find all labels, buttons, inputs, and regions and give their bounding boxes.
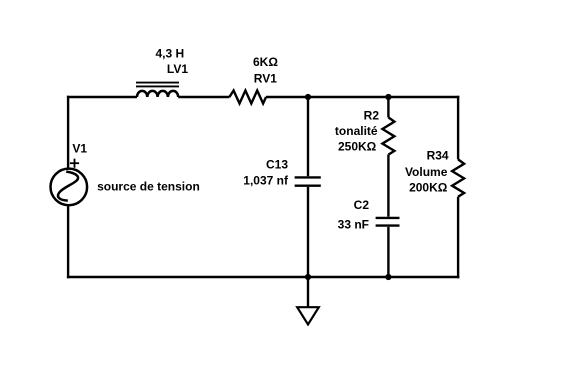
svg-text:RV1: RV1 — [254, 71, 277, 85]
resistor R34 (Volume) — [452, 159, 464, 278]
wire between LV1 and RV1 — [178, 96, 229, 98]
svg-text:250KΩ: 250KΩ — [338, 140, 377, 154]
voltage source V1 (sine source) — [51, 169, 88, 206]
wire left vertical lower (V1 to bottom net) — [67, 205, 69, 278]
svg-text:V1: V1 — [72, 142, 87, 156]
wire left vertical upper (to V1 plus terminal) — [67, 96, 69, 169]
svg-text:33 nF: 33 nF — [338, 217, 369, 231]
svg-text:R2: R2 — [364, 108, 380, 122]
svg-text:R34: R34 — [427, 148, 449, 162]
svg-text:tonalité: tonalité — [335, 124, 378, 138]
junction dot bottom at C13 branch — [305, 274, 311, 280]
junction dot top at C13 branch — [305, 94, 311, 100]
resistor RV1 — [229, 91, 266, 104]
wire right vertical upper (top net to R34) — [457, 96, 459, 160]
svg-text:4,3 H: 4,3 H — [156, 46, 185, 60]
svg-text:LV1: LV1 — [167, 62, 188, 76]
capacitor C13 — [295, 96, 321, 278]
junction dot bottom at C2 branch — [385, 274, 391, 280]
junction dot top at R2 branch — [385, 94, 391, 100]
svg-text:C2: C2 — [354, 198, 370, 212]
wire bottom horizontal (ground net) — [67, 276, 459, 278]
plus sign of V1 — [70, 159, 79, 168]
resistor R2 (tonalite) — [382, 96, 394, 217]
svg-text:1,037 nf: 1,037 nf — [243, 173, 289, 187]
svg-text:source de tension: source de tension — [97, 179, 200, 193]
svg-text:Volume: Volume — [405, 165, 448, 179]
wire RV1 to right corner (top net) — [266, 96, 459, 98]
capacitor C2 — [376, 218, 400, 278]
svg-text:6KΩ: 6KΩ — [253, 55, 278, 69]
ground — [297, 277, 319, 324]
inductor LV1 — [136, 83, 179, 97]
svg-text:C13: C13 — [266, 158, 288, 172]
svg-text:200KΩ: 200KΩ — [409, 181, 448, 195]
wire top left horizontal (node A to LV1) — [67, 96, 137, 98]
